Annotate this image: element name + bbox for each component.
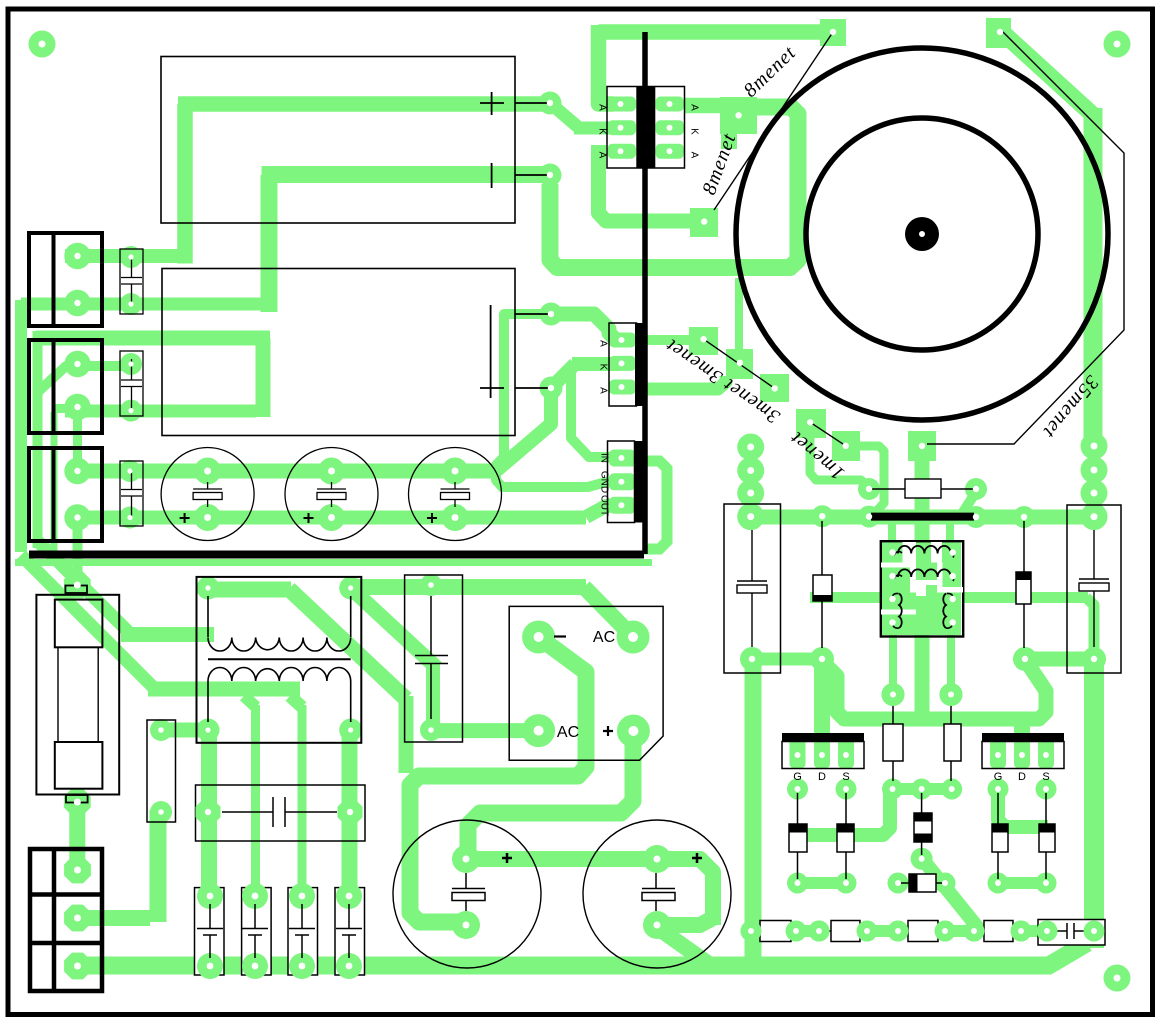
svg-text:K: K (689, 128, 700, 135)
svg-text:G: G (994, 771, 1003, 783)
svg-text:K: K (597, 128, 608, 135)
svg-text:A: A (597, 152, 608, 159)
svg-text:S: S (842, 771, 849, 783)
svg-text:IN: IN (599, 453, 610, 463)
svg-text:D: D (1018, 771, 1026, 783)
svg-text:OUT: OUT (599, 495, 610, 516)
svg-text:A: A (597, 104, 608, 111)
svg-text:D: D (818, 771, 826, 783)
svg-text:S: S (1042, 771, 1049, 783)
svg-text:A: A (689, 104, 700, 111)
svg-text:K: K (598, 364, 609, 371)
svg-text:AC: AC (557, 724, 579, 741)
svg-text:A: A (598, 387, 609, 394)
svg-text:G: G (793, 771, 802, 783)
svg-text:A: A (598, 340, 609, 347)
svg-text:GND: GND (599, 471, 610, 493)
svg-text:A: A (689, 152, 700, 159)
svg-text:AC: AC (593, 629, 615, 646)
